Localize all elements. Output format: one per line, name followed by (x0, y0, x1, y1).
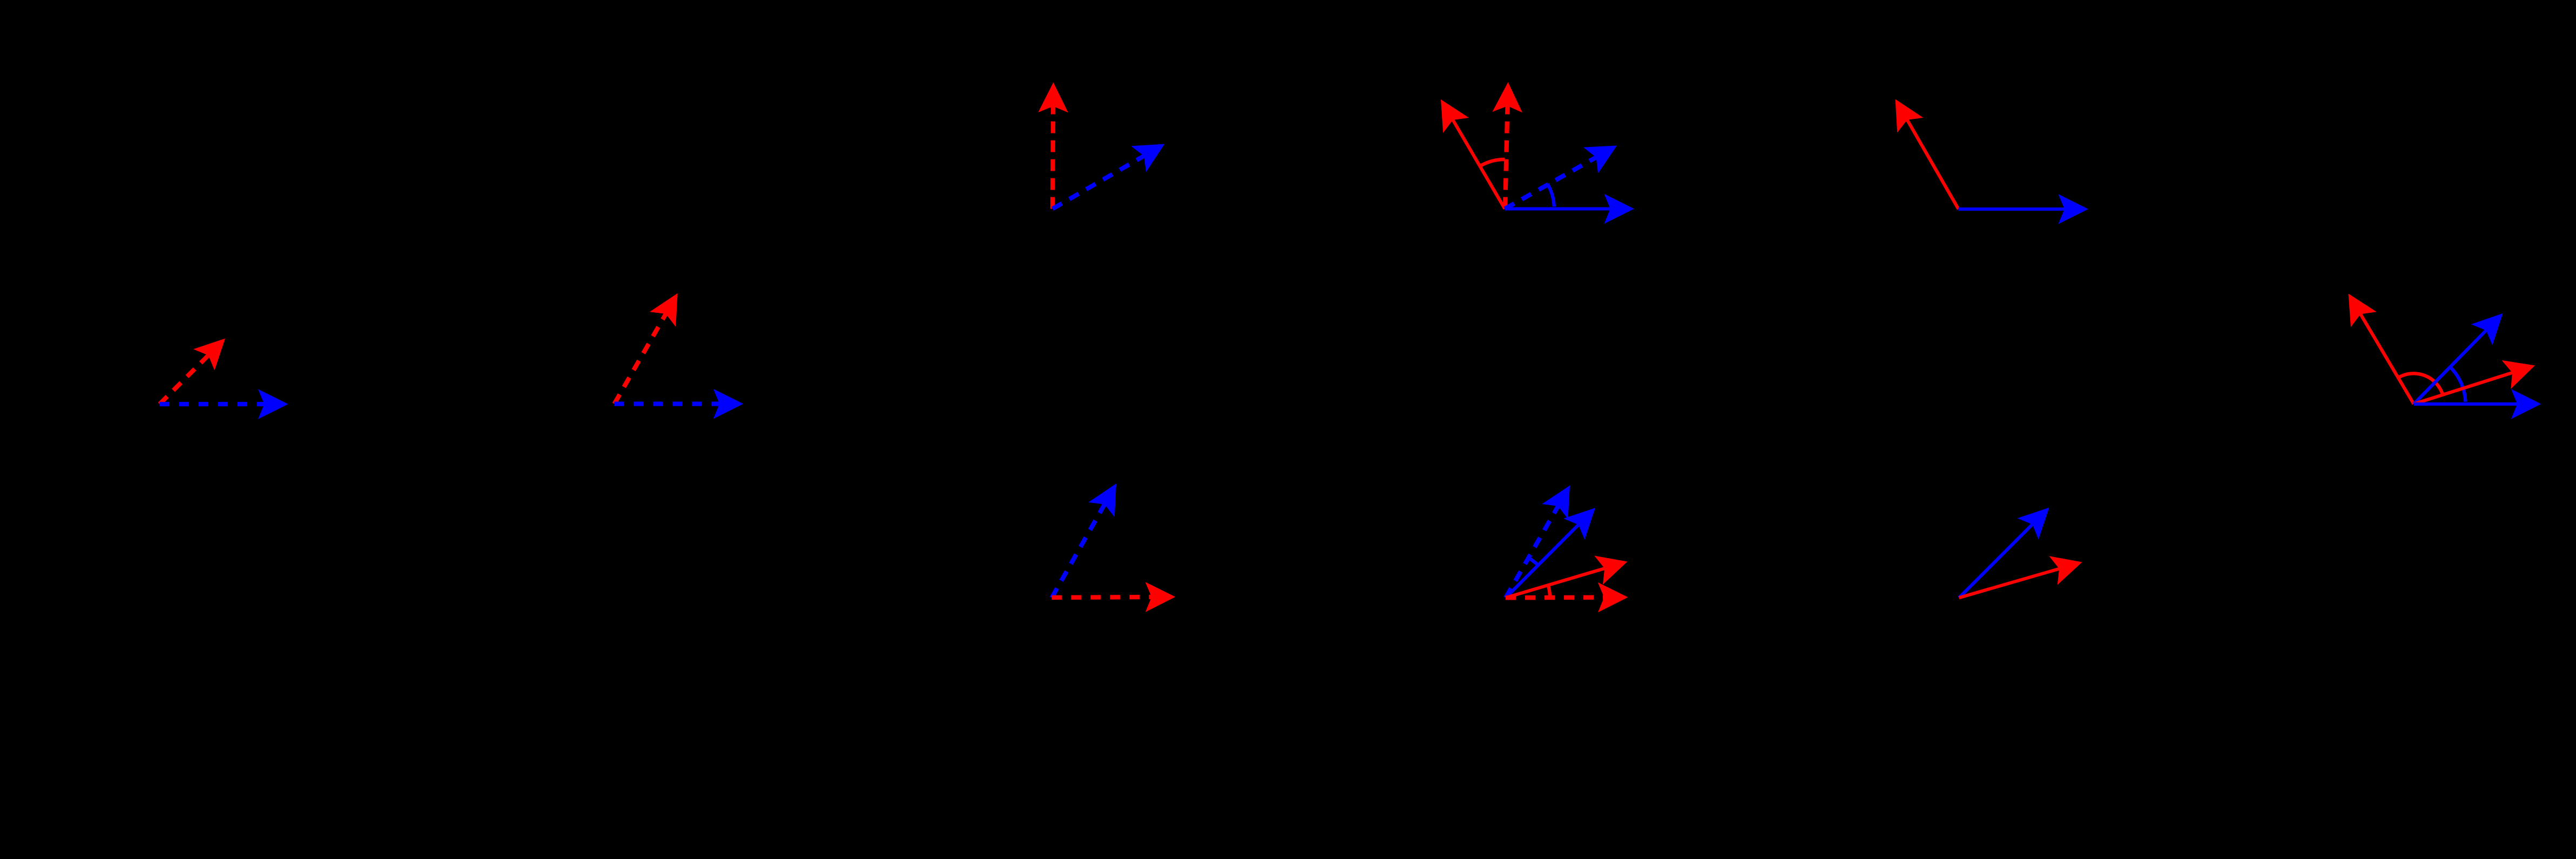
vector A dashed red horizontal, panel d (1052, 582, 1176, 612)
vector A' solid red 120deg, panel e (1428, 92, 1505, 209)
vector B dashed blue 30deg, panel c (1053, 131, 1172, 209)
vector A' solid red 17deg, panel i (2414, 351, 2540, 404)
vector B dashed blue horizontal, panel b (615, 389, 744, 419)
vector A dashed red horizontal, panel f (1506, 582, 1628, 613)
red angle arc, panel i (2398, 373, 2443, 394)
vector A dashed red 45deg, panel a (160, 328, 236, 404)
blue angle arc, panel e (1547, 184, 1554, 206)
vector A solid red 120deg, panel i (2336, 286, 2414, 404)
vector A dashed red vertical, panel c (1038, 82, 1068, 209)
red angle arc, panel f (1548, 585, 1550, 596)
vector A' solid red 16deg, panel f (1506, 547, 1631, 598)
red angle arc, panel e (1481, 159, 1505, 165)
vector B dashed blue 30deg, panel e (1505, 132, 1624, 209)
vector A solid red 16deg, panel h (1959, 548, 2087, 598)
blue angle arc, panel i (2450, 367, 2465, 402)
vector B solid blue 45deg, panel i (2414, 303, 2514, 404)
vector A solid red 120deg, panel g (1882, 92, 1958, 209)
vector B solid blue horizontal, panel g (1959, 194, 2089, 224)
vector B' solid blue 45deg, panel f (1506, 497, 1606, 598)
vector B dashed blue 60deg, panel d (1052, 476, 1130, 598)
vector B dashed blue horizontal, panel a (160, 389, 288, 419)
vector B solid blue 45deg, panel h (1959, 497, 2060, 598)
vector B dashed blue 60deg, panel f (1506, 478, 1583, 598)
vector A dashed red 60deg, panel b (615, 286, 691, 404)
vector B' solid blue horizontal, panel i (2414, 389, 2541, 419)
vector B' solid blue horizontal, panel e (1505, 194, 1635, 224)
vector A dashed red vertical, panel e (1492, 82, 1523, 209)
blue angle arc, panel f (1529, 558, 1539, 566)
